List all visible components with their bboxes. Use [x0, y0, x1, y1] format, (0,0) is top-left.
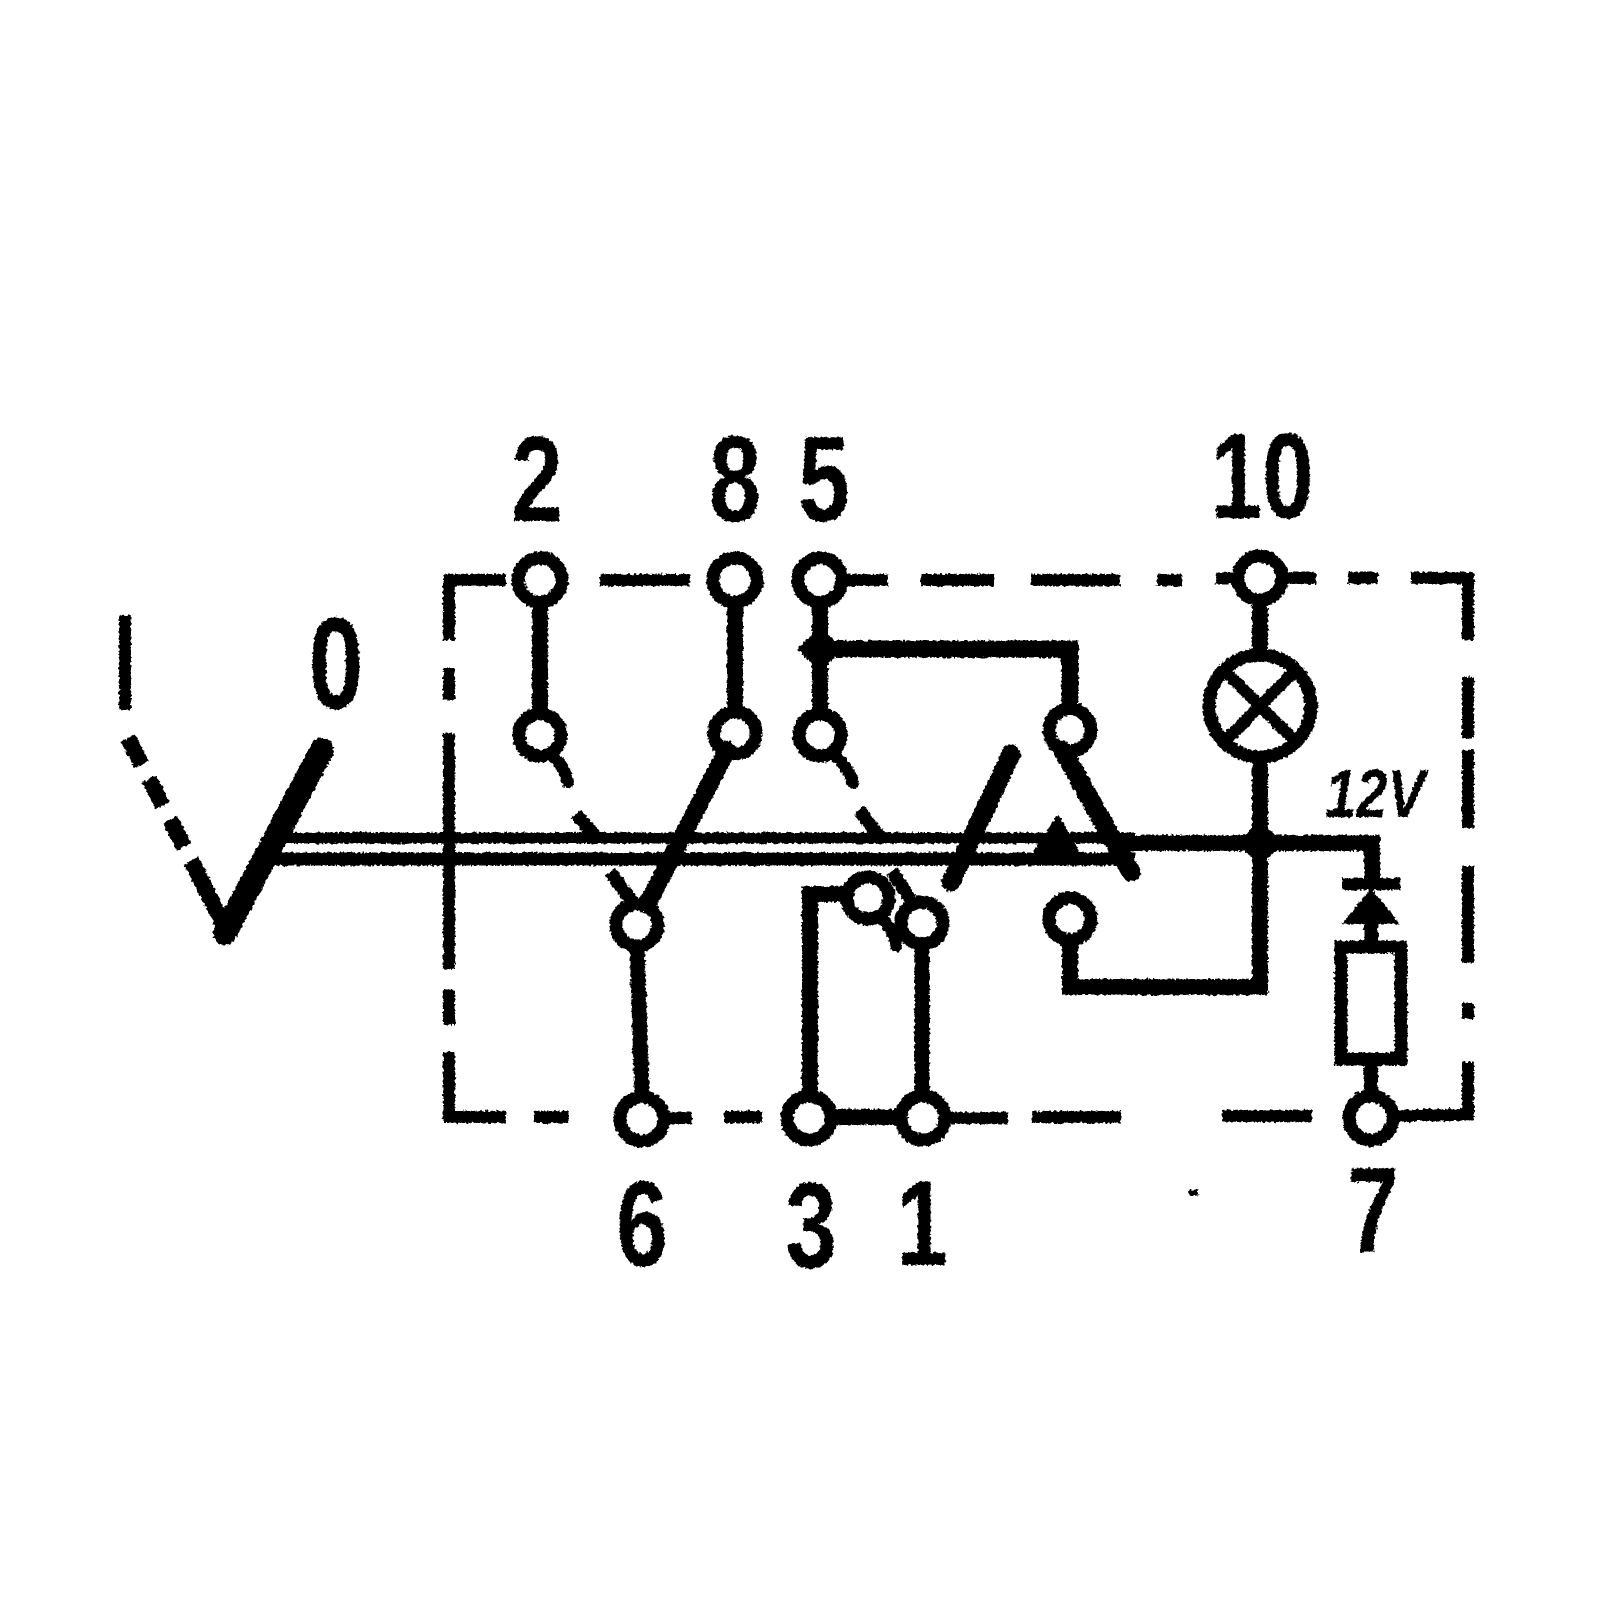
- terminal 6: [620, 1097, 664, 1141]
- fixed contact under terminal 5: [799, 714, 853, 783]
- moving contact above terminal 1: [892, 871, 943, 944]
- enclosure border bottom: [449, 1062, 1468, 1118]
- switch lever from right contact: [1063, 751, 1131, 872]
- speck artifact: [1189, 1190, 1198, 1196]
- switch lever from contact 8: [648, 750, 727, 903]
- actuator bar upper line: [268, 833, 1135, 844]
- terminal 2: [518, 558, 562, 602]
- terminal 3: [787, 1096, 831, 1140]
- enclosure border top: [449, 578, 1468, 640]
- enclosure border left: [443, 668, 455, 1117]
- svg-text:10: 10: [1210, 408, 1313, 544]
- svg-text:7: 7: [1347, 1142, 1399, 1278]
- arrow on actuator bar: [1032, 817, 1080, 856]
- wire 12V junction down and left to moving contact: [1070, 845, 1260, 987]
- terminal 8: [713, 558, 757, 602]
- switch position dashed line (lever alternate position): [125, 615, 213, 903]
- fixed contact under terminal 8: [714, 712, 756, 754]
- svg-text:5: 5: [798, 411, 850, 547]
- svg-text:8: 8: [709, 411, 761, 547]
- wire terminal 10 down to lamp: [1252, 580, 1268, 660]
- wire terminal 5 through junction to contact: [812, 580, 828, 735]
- tick on actuator bar at contact 6: [576, 814, 595, 836]
- terminal 10: [1238, 556, 1282, 600]
- wire terminal 3 to terminal 1: [809, 1109, 923, 1125]
- wire moving contact 3 to terminal 3: [810, 894, 866, 1095]
- wire lamp to 12V junction: [1252, 755, 1268, 845]
- lamp: [1209, 655, 1311, 757]
- terminal 1: [901, 1096, 945, 1140]
- actuator bar lower line: [272, 853, 1135, 866]
- wire junction 5 to right contact: [820, 649, 1070, 715]
- svg-text:3: 3: [785, 1157, 837, 1293]
- svg-text:1: 1: [896, 1155, 948, 1291]
- switch lever free (pole 1): [951, 754, 1011, 882]
- resistor: [1341, 947, 1401, 1096]
- moving contact above terminal 6: [610, 872, 658, 946]
- fixed contact under terminal 2: [519, 714, 568, 782]
- diode: [1342, 884, 1400, 948]
- moving contact above terminal 3: [847, 810, 896, 946]
- terminal 5: [798, 558, 842, 602]
- wire terminal 8 to contact: [727, 580, 743, 733]
- node junction on wire 5: [797, 627, 843, 671]
- moving contact lower right: [1049, 898, 1091, 940]
- enclosure border right: [1462, 677, 1474, 1019]
- wire bar end to 12V junction to diode corner: [1122, 843, 1372, 880]
- wire moving contact 1 down to terminal 1: [915, 948, 930, 1096]
- node 12V junction: [1237, 820, 1283, 866]
- svg-text:12V: 12V: [1325, 756, 1430, 832]
- wire moving contact 6 down to terminal 6: [637, 946, 642, 1096]
- svg-text:0: 0: [309, 591, 364, 736]
- terminal 7: [1349, 1096, 1393, 1140]
- svg-text:6: 6: [616, 1156, 668, 1292]
- actuator lever 0: [225, 750, 322, 933]
- svg-text:2: 2: [511, 411, 563, 547]
- fixed contact right (fed from junction 5): [1049, 709, 1091, 751]
- lever 0 tip: [206, 890, 228, 934]
- wire terminal 2 to contact: [532, 580, 548, 735]
